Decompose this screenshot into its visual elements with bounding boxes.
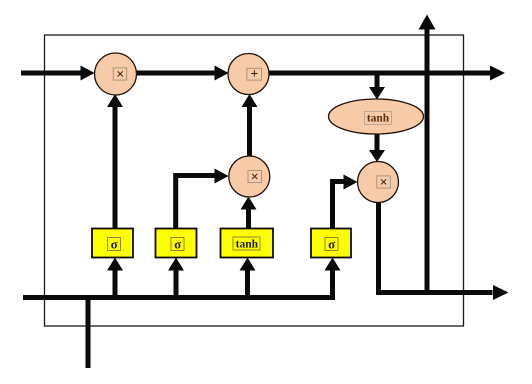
svg-text:×: × <box>116 68 124 83</box>
svg-text:tanh: tanh <box>367 113 390 125</box>
svg-text:+: + <box>250 66 258 81</box>
wire: bottom input line <box>23 295 335 300</box>
wire: top cell-state line left segment into multiply gate <box>21 66 95 81</box>
svg-text:tanh: tanh <box>236 239 259 251</box>
multiply gate U4 (output gate product) <box>358 162 399 203</box>
wire: input stub going down below the cell <box>86 298 91 369</box>
wire: branch from cell-state line down into tanh ellipse <box>369 73 385 100</box>
wire: branch up from input line into sigma gate 1 <box>107 258 123 298</box>
wire: vertical output line going up with arrow <box>419 15 436 293</box>
wire: middle multiply gate up into add gate <box>242 94 258 157</box>
cell boundary rectangle <box>45 35 464 326</box>
wire: sigma gate 4 up and right into output multiply gate <box>333 175 358 230</box>
svg-text:σ: σ <box>328 237 335 252</box>
wire: branch up from input line into sigma gate 2 <box>168 258 184 298</box>
wire: sigma gate 2 up and right into middle multiply gate <box>176 169 229 230</box>
svg-text:σ: σ <box>174 237 181 252</box>
wire: tanh gate box up into middle multiply gate <box>241 197 257 230</box>
wire: sigma gate 1 up into first multiply gate <box>107 94 123 229</box>
svg-text:×: × <box>251 170 259 185</box>
svg-text:×: × <box>380 176 388 191</box>
sigma gate box 1 (forget gate) <box>92 229 133 258</box>
wire: tanh ellipse output down into output multiply gate <box>369 133 385 162</box>
tanh ellipse (cell-state activation) <box>329 99 424 134</box>
wire: branch up from input line into tanh gate box <box>240 258 256 298</box>
wire: cell-state line between multiply and add gates <box>135 66 229 81</box>
add gate U2 (cell-state sum) <box>228 54 269 95</box>
wire: corner from input line up into sigma gate 4 <box>325 258 341 298</box>
svg-text:σ: σ <box>111 237 118 252</box>
wire: output multiply gate down and right to hidden-state output arrow <box>379 201 509 300</box>
multiply gate U1 (input gate product) <box>95 53 137 95</box>
multiply gate U3 (candidate product) <box>229 156 270 197</box>
tanh gate box (candidate) <box>221 229 274 258</box>
sigma gate box 4 (output gate) <box>311 229 351 258</box>
sigma gate box 2 (input gate) <box>156 229 197 258</box>
wire: cell-state line right segment exiting with arrow <box>268 66 505 81</box>
